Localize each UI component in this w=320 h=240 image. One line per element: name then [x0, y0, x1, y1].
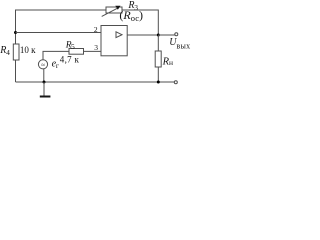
svg-text:5: 5	[71, 42, 75, 51]
resistor R3 wiper diagonal	[102, 8, 118, 16]
wire R4 bottom to ground rail	[15, 60, 17, 82]
node generator ground junction	[43, 81, 46, 84]
ground bar	[40, 96, 51, 98]
svg-text:2: 2	[94, 25, 98, 34]
node Rn ground junction	[157, 81, 160, 84]
op-amp triangle	[116, 32, 122, 38]
terminal bottom circle	[174, 81, 177, 84]
wire R5 to pin 3	[84, 50, 102, 52]
svg-text:4,7 к: 4,7 к	[60, 55, 80, 65]
svg-text:н: н	[169, 58, 173, 67]
resistor R4 body	[13, 44, 19, 60]
svg-text:10 к: 10 к	[20, 45, 36, 55]
wire bottom rail	[16, 81, 175, 83]
svg-text:≈: ≈	[41, 62, 45, 69]
resistor R5 body	[69, 49, 84, 55]
svg-text:г: г	[56, 61, 59, 70]
terminal Uout circle	[175, 33, 178, 36]
svg-text:3: 3	[94, 43, 98, 52]
svg-text:4: 4	[6, 48, 10, 57]
generator eg circle	[38, 60, 47, 69]
node output junction	[157, 34, 160, 37]
wire output node down to Rn	[157, 35, 159, 51]
wire to pin 2	[16, 32, 102, 34]
wire top rail	[16, 10, 159, 44]
resistor R3 body	[106, 7, 122, 13]
wire ground stem	[43, 82, 45, 96]
node inverting input junction	[14, 31, 17, 34]
svg-text:вых: вых	[176, 42, 190, 51]
wire output to terminal	[158, 34, 175, 36]
wire R3 right to output corner	[122, 10, 158, 35]
resistor Rn body	[155, 51, 161, 67]
wire op-amp output	[127, 34, 158, 36]
wire generator top to R5	[43, 51, 69, 59]
wire generator bottom to rail	[43, 69, 45, 82]
op-amp U1 body	[101, 26, 127, 56]
wire Rn to ground rail	[157, 67, 159, 82]
svg-text:3: 3	[134, 3, 138, 12]
resistor R3 arrowhead	[115, 6, 120, 10]
